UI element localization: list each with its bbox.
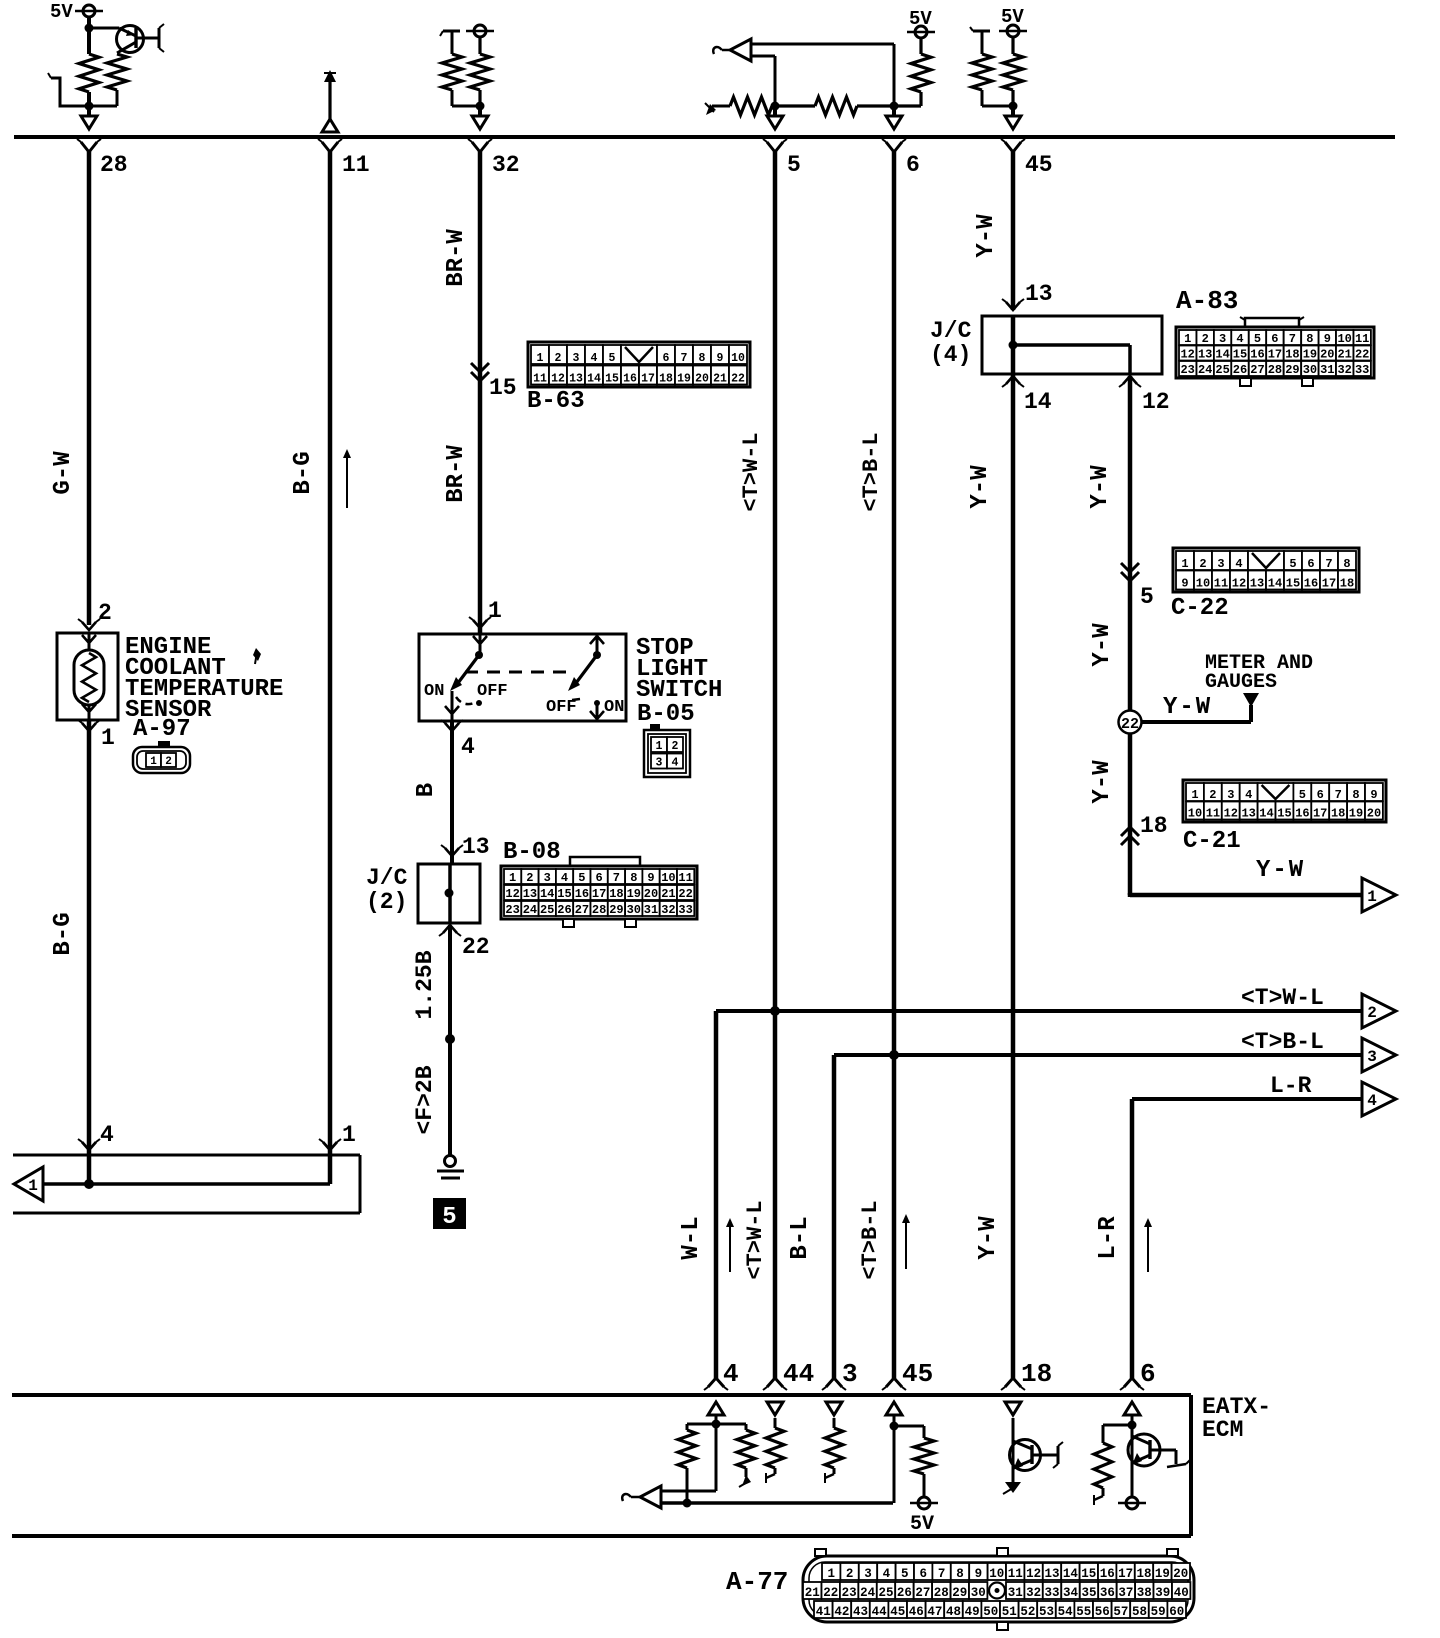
svg-text:7: 7 bbox=[938, 1567, 946, 1581]
resistor R8 (pin 45) bbox=[972, 54, 1013, 106]
wire label (F)2B bbox=[412, 1065, 438, 1134]
svg-text:22: 22 bbox=[823, 1586, 838, 1600]
connector label A-83 bbox=[1176, 286, 1238, 316]
svg-text:4: 4 bbox=[1367, 1092, 1377, 1110]
svg-text:20: 20 bbox=[1173, 1567, 1188, 1581]
output triangle to pin 5 bbox=[767, 106, 783, 129]
svg-text:9: 9 bbox=[717, 352, 724, 365]
svg-text:18: 18 bbox=[1140, 813, 1168, 839]
connector fork J/C(4) pin 14 bbox=[1002, 376, 1024, 387]
svg-text:A-77: A-77 bbox=[726, 1567, 788, 1597]
svg-text:22: 22 bbox=[731, 373, 745, 386]
svg-text:49: 49 bbox=[965, 1605, 980, 1619]
svg-text:<T>B-L: <T>B-L bbox=[1241, 1029, 1324, 1055]
svg-text:54: 54 bbox=[1058, 1605, 1074, 1619]
svg-text:14: 14 bbox=[1063, 1567, 1079, 1581]
switch text OFF (left) bbox=[477, 682, 508, 701]
pin label 2 (sensor) bbox=[98, 600, 112, 626]
svg-text:4: 4 bbox=[100, 1122, 114, 1148]
switch link line (dashed) bbox=[465, 671, 572, 674]
pin label 14 (J/C4) bbox=[1024, 389, 1052, 415]
pin label 12 (J/C4) bbox=[1142, 389, 1170, 415]
svg-text:11: 11 bbox=[342, 152, 370, 178]
svg-text:11: 11 bbox=[533, 373, 547, 386]
svg-text:4: 4 bbox=[1245, 788, 1252, 802]
wire (T)B-L (pin 6 to ECM pin 45) bbox=[892, 150, 897, 1380]
svg-text:23: 23 bbox=[1180, 363, 1194, 377]
svg-text:G-W: G-W bbox=[50, 451, 77, 495]
resistor R3 (pin 32) bbox=[442, 54, 480, 106]
svg-text:55: 55 bbox=[1076, 1605, 1091, 1619]
svg-text:2: 2 bbox=[1202, 332, 1209, 346]
connector fork ECM pin 4 bbox=[704, 1378, 728, 1390]
wire label Y-W top bbox=[973, 214, 1000, 258]
svg-text:41: 41 bbox=[816, 1605, 831, 1619]
wire 5V to node bbox=[87, 17, 91, 106]
svg-text:14: 14 bbox=[587, 373, 601, 386]
svg-text:3: 3 bbox=[1219, 332, 1226, 346]
connector label A-97 bbox=[133, 716, 191, 743]
wire L-R branch to dest 4 bbox=[1132, 1099, 1367, 1380]
source triangle 1 (bottom left) bbox=[14, 1167, 43, 1201]
power 5V supply symbol (ECM) bbox=[910, 1497, 938, 1509]
svg-text:24: 24 bbox=[1198, 363, 1212, 377]
wire (F)2B (splice to ground) bbox=[448, 1039, 452, 1156]
svg-text:8: 8 bbox=[630, 871, 637, 885]
svg-text:3: 3 bbox=[842, 1359, 858, 1389]
connector fork sensor pin 1 bbox=[78, 720, 100, 731]
node junction dot (894,1055) bbox=[889, 1050, 899, 1060]
svg-text:12: 12 bbox=[1026, 1567, 1041, 1581]
pin label 1 (bottom left) bbox=[342, 1122, 356, 1148]
svg-text:21: 21 bbox=[1337, 348, 1351, 362]
connector C-21 pin grid bbox=[1183, 780, 1386, 822]
svg-text:A-97: A-97 bbox=[133, 716, 191, 743]
transistor Q2 (ECM pin 18) bbox=[1010, 1440, 1064, 1471]
svg-text:16: 16 bbox=[1100, 1567, 1115, 1581]
pin label 6 (ECM) bbox=[1140, 1359, 1156, 1389]
svg-text:27: 27 bbox=[1250, 363, 1264, 377]
svg-text:14: 14 bbox=[1024, 389, 1052, 415]
connector fork pin 6 bbox=[882, 139, 906, 152]
wire B (switch to J/C(2)) bbox=[450, 721, 454, 864]
svg-text:11: 11 bbox=[1206, 807, 1220, 821]
wire R7 to 5V bbox=[919, 38, 922, 54]
connector label B-63 bbox=[527, 388, 585, 415]
svg-text:(4): (4) bbox=[930, 342, 971, 368]
svg-text:8: 8 bbox=[1306, 332, 1313, 346]
power supply symbol (Q3) bbox=[1118, 1497, 1146, 1509]
svg-text:32: 32 bbox=[492, 152, 520, 178]
pin label 1 (sensor) bbox=[101, 725, 115, 751]
svg-text:19: 19 bbox=[1303, 348, 1317, 362]
svg-text:10: 10 bbox=[731, 352, 745, 365]
svg-text:53: 53 bbox=[1039, 1605, 1054, 1619]
pin label 18 (ECM) bbox=[1021, 1359, 1052, 1389]
wire label B-L (ECM) bbox=[787, 1216, 814, 1259]
resistor R13 (ECM pin 3) bbox=[825, 1428, 843, 1483]
resistor R2 (emitter, pin 28) bbox=[89, 54, 127, 106]
resistor R4 (pin 32) bbox=[470, 54, 490, 106]
svg-text:2: 2 bbox=[1367, 1004, 1377, 1022]
connector fork J/C(2) pin 22 bbox=[439, 925, 461, 936]
pin label 28 bbox=[100, 152, 128, 178]
svg-text:L-R: L-R bbox=[1270, 1073, 1312, 1099]
svg-text:9: 9 bbox=[647, 871, 654, 885]
svg-text:4: 4 bbox=[461, 734, 475, 760]
svg-text:14: 14 bbox=[1268, 577, 1282, 591]
wire label BR-W lower bbox=[443, 445, 470, 503]
svg-text:4: 4 bbox=[591, 352, 598, 365]
wire to bus pin 32 bbox=[478, 106, 482, 116]
svg-text:15: 15 bbox=[1233, 348, 1247, 362]
svg-text:19: 19 bbox=[1349, 807, 1363, 821]
svg-text:14: 14 bbox=[1215, 348, 1229, 362]
svg-text:33: 33 bbox=[1355, 363, 1369, 377]
svg-text:21: 21 bbox=[713, 373, 727, 386]
svg-text:35: 35 bbox=[1081, 1586, 1096, 1600]
svg-text:6: 6 bbox=[919, 1567, 927, 1581]
svg-text:2: 2 bbox=[1199, 557, 1206, 571]
svg-text:17: 17 bbox=[1268, 348, 1282, 362]
svg-text:4: 4 bbox=[723, 1359, 739, 1389]
wire label G-W bbox=[50, 451, 77, 495]
pin label 45 (ECM) bbox=[902, 1359, 933, 1389]
pin label 15 (B-63) bbox=[489, 375, 517, 401]
svg-text:18: 18 bbox=[1340, 577, 1354, 591]
svg-text:B-63: B-63 bbox=[527, 388, 585, 415]
svg-text:7: 7 bbox=[1335, 788, 1342, 802]
connector A-83 latch bracket bbox=[1240, 317, 1304, 327]
connector fork ECM pin 18 bbox=[1001, 1378, 1025, 1390]
svg-text:6: 6 bbox=[1271, 332, 1278, 346]
svg-text:4: 4 bbox=[1235, 557, 1242, 571]
svg-text:21: 21 bbox=[805, 1586, 820, 1600]
wire node22 to meter bbox=[1141, 705, 1251, 722]
wire label (T)B-L (dest 3) bbox=[1241, 1029, 1324, 1055]
wire R6 to node 6 bbox=[857, 104, 894, 107]
wire label Y-W (above node 22) bbox=[1089, 623, 1116, 667]
svg-text:19: 19 bbox=[677, 373, 691, 386]
power 5V label (pin 45) bbox=[1001, 6, 1024, 28]
output triangle to pin 28 bbox=[81, 116, 97, 129]
node 22 circle bbox=[1119, 711, 1142, 734]
connector fork pin 5 bbox=[763, 139, 787, 152]
wire label B-G lower-left bbox=[50, 912, 77, 955]
resistor R9 (pin 45) bbox=[1003, 54, 1023, 106]
wire J/C(4) branch bbox=[1013, 345, 1130, 374]
switch text LIGHT bbox=[636, 656, 708, 683]
connector fork switch pin 4 bbox=[441, 720, 463, 731]
svg-text:34: 34 bbox=[1063, 1586, 1079, 1600]
svg-text:8: 8 bbox=[1343, 557, 1350, 571]
wire pin45 node down bbox=[893, 1426, 896, 1503]
svg-text:44: 44 bbox=[783, 1359, 814, 1389]
connector fork J/C(2) pin 13 bbox=[441, 845, 463, 856]
svg-text:3: 3 bbox=[573, 352, 580, 365]
svg-text:Y-W: Y-W bbox=[1089, 760, 1116, 804]
svg-text:1: 1 bbox=[488, 598, 502, 624]
svg-text:33: 33 bbox=[678, 903, 692, 917]
svg-text:14: 14 bbox=[540, 887, 554, 901]
wire loop right side bbox=[359, 1155, 362, 1213]
svg-text:14: 14 bbox=[1259, 807, 1273, 821]
svg-text:3: 3 bbox=[544, 871, 551, 885]
label J/C (2) bbox=[366, 865, 408, 915]
svg-text:5: 5 bbox=[901, 1567, 909, 1581]
wire loop upper (bottom left) bbox=[13, 1154, 360, 1157]
svg-text:32: 32 bbox=[661, 903, 675, 917]
connector fork pin 32 bbox=[468, 139, 492, 152]
switch pole 2 contact bbox=[590, 634, 604, 659]
svg-text:5: 5 bbox=[1254, 332, 1261, 346]
svg-text:18: 18 bbox=[1285, 348, 1299, 362]
wire G-W (pin 28 to ECT sensor) bbox=[87, 150, 92, 625]
label J/C (4) bbox=[930, 318, 972, 368]
wire loop lower (bottom left) bbox=[13, 1212, 360, 1215]
wire node5 to R6 bbox=[775, 104, 815, 107]
svg-text:7: 7 bbox=[1325, 557, 1332, 571]
svg-text:29: 29 bbox=[952, 1586, 967, 1600]
wire label B bbox=[413, 783, 440, 797]
svg-text:4: 4 bbox=[1236, 332, 1243, 346]
svg-text:39: 39 bbox=[1155, 1586, 1170, 1600]
connector A-97 pin icon bbox=[133, 741, 190, 773]
wire BR-W (pin 32 to stop light switch) bbox=[478, 150, 483, 634]
connector label B-08 bbox=[503, 839, 561, 866]
svg-text:1: 1 bbox=[342, 1122, 356, 1148]
connector B-08 pin grid bbox=[501, 866, 697, 927]
svg-text:Y-W: Y-W bbox=[1087, 465, 1114, 509]
svg-text:ON: ON bbox=[424, 682, 444, 701]
wire supply to R9 bbox=[1011, 37, 1014, 54]
node junction dot (775,106) bbox=[771, 102, 780, 111]
input triangle ECM pin 45 bbox=[886, 1402, 902, 1426]
svg-text:47: 47 bbox=[927, 1605, 942, 1619]
power 5V label (pin 6 pull-up) bbox=[909, 8, 932, 30]
svg-text:31: 31 bbox=[1008, 1586, 1023, 1600]
resistor R15 (ECM pin 6) bbox=[1094, 1425, 1132, 1505]
svg-text:5: 5 bbox=[1299, 788, 1306, 802]
pin label 5 (C-22) bbox=[1140, 584, 1154, 610]
svg-text:17: 17 bbox=[1118, 1567, 1133, 1581]
resistor R5 (pin 5 series) bbox=[730, 97, 772, 115]
switch text ON (right) bbox=[604, 698, 624, 717]
wire label Y-W (ECM) bbox=[975, 1216, 1002, 1260]
wire G-W sensor to bottom bbox=[87, 720, 92, 1184]
svg-text:15: 15 bbox=[557, 887, 571, 901]
connector label C-22 bbox=[1171, 595, 1229, 622]
svg-text:12: 12 bbox=[1180, 348, 1194, 362]
svg-text:3: 3 bbox=[1367, 1048, 1377, 1066]
svg-text:6: 6 bbox=[906, 152, 920, 178]
switch arm 1 (ON position) bbox=[450, 655, 479, 691]
svg-text:43: 43 bbox=[853, 1605, 868, 1619]
svg-text:26: 26 bbox=[1233, 363, 1247, 377]
output triangle to pin 32 bbox=[472, 116, 488, 129]
svg-text:50: 50 bbox=[983, 1605, 998, 1619]
svg-text:5: 5 bbox=[609, 352, 616, 365]
wire pin4 node to comparator bbox=[715, 1424, 718, 1491]
wire label (T)W-L (ECM) bbox=[743, 1200, 768, 1279]
ground symbol bbox=[437, 1171, 464, 1178]
svg-text:18: 18 bbox=[1331, 807, 1345, 821]
svg-text:3: 3 bbox=[864, 1567, 872, 1581]
svg-text:16: 16 bbox=[1250, 348, 1264, 362]
svg-text:20: 20 bbox=[1367, 807, 1381, 821]
footnote mark (sensor) bbox=[253, 648, 261, 664]
ground arrow (Q2) bbox=[1003, 1482, 1021, 1494]
svg-text:<F>2B: <F>2B bbox=[412, 1065, 438, 1134]
svg-text:22: 22 bbox=[462, 934, 490, 960]
svg-text:12: 12 bbox=[505, 887, 519, 901]
svg-text:26: 26 bbox=[897, 1586, 912, 1600]
svg-text:52: 52 bbox=[1020, 1605, 1035, 1619]
svg-text:28: 28 bbox=[100, 152, 128, 178]
connector A-77 pin grid bbox=[803, 1548, 1194, 1630]
input triangle ECM pin 18 bbox=[1005, 1402, 1021, 1415]
svg-text:11: 11 bbox=[678, 871, 692, 885]
svg-text:31: 31 bbox=[644, 903, 658, 917]
svg-text:15: 15 bbox=[1081, 1567, 1096, 1581]
svg-text:22: 22 bbox=[1121, 716, 1139, 733]
svg-text:2: 2 bbox=[555, 352, 562, 365]
svg-text:13: 13 bbox=[1241, 807, 1255, 821]
svg-text:18: 18 bbox=[609, 887, 623, 901]
switch text STOP bbox=[636, 635, 694, 662]
svg-text:6: 6 bbox=[663, 352, 670, 365]
svg-text:15: 15 bbox=[605, 373, 619, 386]
wire node6 to R7 bbox=[894, 92, 921, 106]
wire hook (left of R5) bbox=[705, 103, 730, 115]
pin label 1 (switch) bbox=[488, 598, 502, 624]
meter feed arrow bbox=[1243, 693, 1259, 707]
svg-text:L-R: L-R bbox=[1095, 1216, 1122, 1260]
svg-text:20: 20 bbox=[1320, 348, 1334, 362]
svg-text:33: 33 bbox=[1044, 1586, 1059, 1600]
power supply symbol (pin 32) bbox=[466, 25, 494, 37]
wire to bus pin 28 bbox=[87, 106, 91, 116]
connector B-05 pin icon bbox=[644, 724, 690, 777]
inline connector marks B-63 on BR-W bbox=[471, 363, 489, 381]
inline connector marks C-21 on Y-W bbox=[1121, 827, 1139, 845]
thermistor element (ECT sensor) bbox=[74, 650, 104, 705]
svg-text:9: 9 bbox=[1370, 788, 1377, 802]
wire label 1.25B bbox=[412, 950, 438, 1019]
wire label (T)W-L upper bbox=[739, 432, 764, 511]
text ECM bbox=[1202, 1417, 1243, 1443]
svg-text:13: 13 bbox=[462, 834, 490, 860]
svg-text:1: 1 bbox=[1191, 788, 1198, 802]
connector B-08 latch bracket bbox=[570, 857, 640, 866]
wire label Y-W (below node 22) bbox=[1089, 760, 1116, 804]
wire label W-L (ECM) bbox=[678, 1216, 705, 1259]
wire Q2 emitter to ground bbox=[1012, 1418, 1015, 1484]
svg-text:44: 44 bbox=[872, 1605, 888, 1619]
svg-text:28: 28 bbox=[592, 903, 606, 917]
wire label Y-W (meter branch) bbox=[1163, 694, 1212, 721]
output triangle to pin 45 bbox=[1005, 116, 1021, 129]
svg-text:6: 6 bbox=[1140, 1359, 1156, 1389]
svg-text:13: 13 bbox=[1198, 348, 1212, 362]
svg-text:<T>W-L: <T>W-L bbox=[743, 1200, 768, 1279]
connector fork ECM pin 45 bbox=[882, 1378, 906, 1390]
wire label Y-W (below J/C4 left) bbox=[967, 465, 994, 509]
svg-text:18: 18 bbox=[659, 373, 673, 386]
svg-text:13: 13 bbox=[1025, 281, 1053, 307]
wire 1.25B (J/C2 to splice) bbox=[448, 925, 452, 1039]
switch text ON (left) bbox=[424, 682, 444, 701]
svg-text:24: 24 bbox=[860, 1586, 876, 1600]
svg-text:B-G: B-G bbox=[290, 451, 317, 494]
svg-text:7: 7 bbox=[681, 352, 688, 365]
svg-text:17: 17 bbox=[1322, 577, 1336, 591]
output triangle to pin 6 bbox=[886, 106, 902, 129]
wire label Y-W (to dest 1) bbox=[1256, 857, 1305, 884]
resistor R14 (ECM pin45 to 5V) bbox=[894, 1426, 934, 1497]
svg-text:8: 8 bbox=[956, 1567, 964, 1581]
svg-text:4: 4 bbox=[672, 757, 679, 770]
svg-text:45: 45 bbox=[890, 1605, 905, 1619]
svg-text:1: 1 bbox=[101, 725, 115, 751]
svg-text:6: 6 bbox=[1317, 788, 1324, 802]
svg-text:28: 28 bbox=[934, 1586, 949, 1600]
svg-text:30: 30 bbox=[1303, 363, 1317, 377]
svg-text:4: 4 bbox=[561, 871, 568, 885]
svg-text:1: 1 bbox=[1181, 557, 1188, 571]
svg-text:29: 29 bbox=[1285, 363, 1299, 377]
wire label B-G bbox=[290, 451, 317, 494]
svg-text:58: 58 bbox=[1132, 1605, 1147, 1619]
resistor R1 (pull-up, pin 28) bbox=[79, 54, 99, 92]
svg-text:1: 1 bbox=[509, 871, 516, 885]
svg-text:4: 4 bbox=[883, 1567, 891, 1581]
svg-text:BR-W: BR-W bbox=[443, 229, 470, 287]
EATX-ECM box bbox=[12, 1395, 1191, 1536]
connector fork wire G-W end bbox=[78, 1139, 100, 1150]
svg-text:C-22: C-22 bbox=[1171, 595, 1229, 622]
svg-text:9: 9 bbox=[975, 1567, 983, 1581]
svg-text:23: 23 bbox=[505, 903, 519, 917]
wire label L-R (ECM) bbox=[1095, 1216, 1122, 1260]
connector fork switch pin 1 bbox=[469, 617, 491, 628]
svg-text:10: 10 bbox=[1196, 577, 1210, 591]
svg-text:Y-W: Y-W bbox=[973, 214, 1000, 258]
svg-text:1: 1 bbox=[656, 740, 663, 753]
signal arrow (L-R) bbox=[1144, 1218, 1152, 1272]
switch text OFF (right) bbox=[546, 698, 577, 717]
switch throw dash (right) bbox=[572, 699, 580, 700]
svg-text:ECM: ECM bbox=[1202, 1417, 1243, 1443]
resistor R12 (ECM pin 44) bbox=[766, 1428, 784, 1483]
comparator U1 (stop lamp input) bbox=[713, 39, 751, 61]
connector fork J/C(4) pin 13 bbox=[1002, 299, 1024, 310]
wire Y-W (node22 down) bbox=[1128, 733, 1133, 895]
svg-text:12: 12 bbox=[1224, 807, 1238, 821]
svg-text:9: 9 bbox=[1324, 332, 1331, 346]
wire label (T)B-L (ECM) bbox=[858, 1200, 883, 1279]
svg-text:16: 16 bbox=[1295, 807, 1309, 821]
svg-text:2: 2 bbox=[526, 871, 533, 885]
power 5V supply symbol (pin 45) bbox=[999, 25, 1027, 37]
pin label 5 bbox=[787, 152, 801, 178]
power 5V label (ECM) bbox=[910, 1513, 934, 1536]
connector fork wire B-G end bbox=[319, 1139, 341, 1150]
svg-text:SWITCH: SWITCH bbox=[636, 677, 722, 704]
wire (T)W-L branch to dest 2 bbox=[716, 1011, 1367, 1380]
svg-text:24: 24 bbox=[523, 903, 537, 917]
svg-text:37: 37 bbox=[1118, 1586, 1133, 1600]
